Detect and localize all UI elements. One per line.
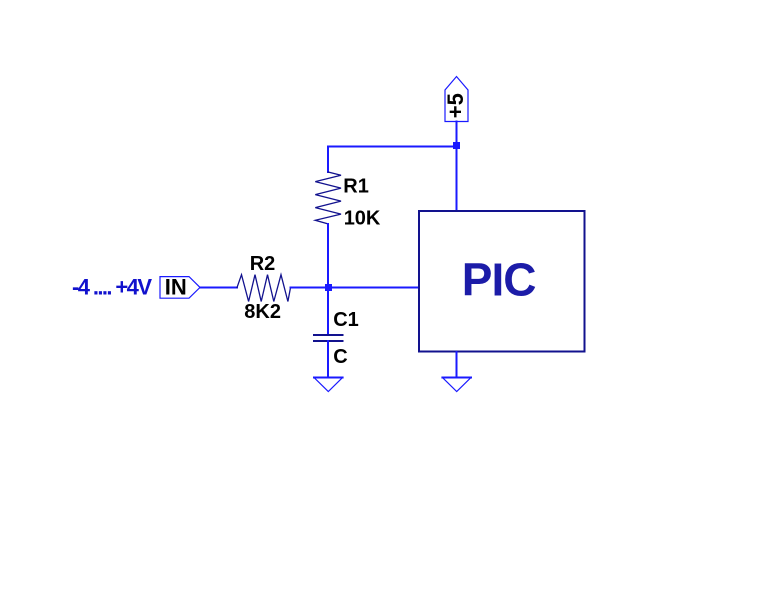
node junction middle (blue square)	[325, 284, 332, 291]
wire IN to R2 left lead	[200, 287, 237, 289]
wire R1 bottom lead to junction	[327, 224, 329, 288]
resistor R1 (vertical zigzag)	[315, 172, 341, 224]
wire junction to PIC left pin	[328, 287, 418, 289]
wire horizontal rail to R1 top	[328, 145, 456, 147]
svg-text:R2: R2	[250, 253, 276, 275]
svg-text:R1: R1	[343, 176, 369, 198]
wire +5 down to junction	[456, 122, 458, 147]
wire C1 bottom plate to ground	[327, 341, 329, 377]
svg-text:10K: 10K	[344, 208, 381, 230]
IC U1 PIC box	[419, 211, 585, 351]
ground symbol below C1	[314, 378, 343, 392]
svg-text:-4 .... +4V: -4 .... +4V	[72, 275, 152, 300]
wire PIC bottom pin to ground	[456, 352, 458, 377]
wire R1 top lead	[327, 146, 329, 172]
svg-text:8K2: 8K2	[244, 301, 281, 323]
capacitor C1 top plate	[314, 334, 343, 336]
supply symbol +5	[443, 77, 468, 122]
svg-text:+5: +5	[443, 93, 468, 118]
capacitor C1 bottom plate	[314, 340, 343, 342]
ground symbol below PIC	[442, 378, 471, 392]
wire junction down to C1 top plate	[327, 288, 329, 335]
resistor R2 (horizontal zigzag)	[237, 275, 291, 302]
svg-text:IN: IN	[165, 275, 187, 300]
port IN tag	[160, 275, 200, 300]
node junction top (blue square)	[453, 142, 460, 149]
svg-text:C: C	[333, 346, 347, 368]
svg-text:C1: C1	[333, 309, 359, 331]
wire junction down to PIC top pin	[456, 146, 458, 210]
svg-text:PIC: PIC	[462, 254, 536, 306]
wire R2 right lead to junction	[291, 287, 329, 289]
